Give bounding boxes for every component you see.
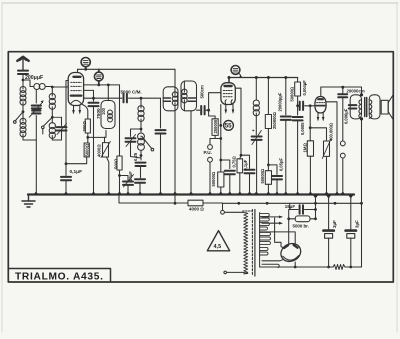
svg-text:250000: 250000 bbox=[213, 119, 218, 133]
output transformer core bbox=[365, 98, 367, 117]
svg-text:0,0005: 0,0005 bbox=[300, 122, 305, 135]
junction below L4 bbox=[51, 116, 54, 119]
svg-text:0,004μF: 0,004μF bbox=[302, 80, 307, 96]
tube V3 grid row bbox=[317, 102, 325, 104]
junction blob 1M/bus bbox=[308, 192, 313, 195]
junction blob 50uF/bus bbox=[126, 192, 131, 195]
screen dropping resistor 250000 bbox=[267, 76, 270, 79]
wire IFT1 down through bus to heater line bbox=[174, 103, 176, 204]
tube V2 anode bar bbox=[225, 85, 232, 87]
tube V2 (55) envelope bbox=[221, 83, 235, 105]
speaker filter bracket bbox=[350, 95, 361, 119]
svg-text:20000cm: 20000cm bbox=[347, 89, 365, 94]
coil L5 bbox=[51, 117, 53, 123]
bracket feed dot bbox=[360, 93, 363, 96]
wire L1 bottom to junction bbox=[22, 103, 24, 112]
svg-text:0,75Ω: 0,75Ω bbox=[232, 156, 237, 168]
primary bottom lead bbox=[227, 272, 248, 273]
junction blob 0.1uF/bus bbox=[64, 192, 69, 195]
tube V3 anode bar bbox=[318, 98, 323, 100]
coil L2 antenna secondary bbox=[22, 112, 24, 121]
filter electrolytic 2 bbox=[348, 195, 354, 199]
wire resistor to junction on x221 bbox=[215, 135, 221, 138]
scan page edge right bbox=[396, 3, 398, 332]
coupling cap 0.1uF to output grid bbox=[241, 155, 250, 168]
junction blob IFT1/bus bbox=[173, 192, 178, 195]
junction blob IFT2/bus bbox=[189, 192, 194, 195]
junction blob 7500/bus bbox=[91, 192, 96, 195]
cathode resistor Ra bbox=[83, 105, 88, 120]
grid leak 1 M ohm bbox=[309, 106, 311, 128]
coupling coil L3 horizontal bbox=[34, 84, 45, 90]
arrow from grid cap to bus bbox=[239, 73, 241, 75]
tube V3 cathode bar bbox=[316, 105, 325, 107]
junction blob jack/bus bbox=[340, 192, 345, 195]
tuning capacitor C1 (two gang stacked) bbox=[35, 90, 37, 103]
junction blob pot/bus bbox=[324, 192, 329, 195]
svg-text:500Ω: 500Ω bbox=[114, 158, 119, 169]
heater line right section bbox=[223, 202, 362, 204]
HT leads with arrows to rectifier bbox=[262, 216, 280, 218]
anode feed Z wire bbox=[275, 218, 285, 249]
wire IFT2 secondary down to bus bbox=[190, 111, 192, 194]
junction blob avc/bus bbox=[227, 192, 232, 195]
tone capacitor 0.05uF bbox=[268, 165, 277, 175]
wire L5/trimmer bottom joining down bbox=[52, 136, 61, 141]
svg-text:400.000Ω: 400.000Ω bbox=[328, 122, 333, 141]
filter capacitor 15uF bbox=[300, 205, 303, 213]
svg-text:4000 Ω: 4000 Ω bbox=[189, 207, 204, 212]
rectifier tube bbox=[278, 240, 304, 265]
tube V3 heater leads with arrows bbox=[317, 113, 319, 118]
coupling capacitor to V3 grid bbox=[300, 102, 303, 110]
wire node B right to tube V1 grid bbox=[52, 86, 68, 88]
capacitor 0.0005 bbox=[297, 106, 299, 115]
volume resistor 50000 bbox=[218, 172, 224, 187]
tube V2 type circle 55 bbox=[224, 121, 234, 131]
border frame bbox=[8, 52, 393, 282]
svg-text:4000Ω: 4000Ω bbox=[96, 144, 101, 157]
tube V2 plate line down bbox=[235, 88, 241, 155]
series capacitor bbox=[135, 179, 145, 182]
svg-text:50000Ω: 50000Ω bbox=[290, 86, 295, 101]
junction blob plate-res/bus bbox=[237, 192, 242, 195]
plate line of V1 to IF transformer bbox=[78, 68, 176, 70]
IF transformer IFT2 bracket bbox=[181, 81, 197, 111]
grid capacitor column x160 bbox=[160, 98, 162, 128]
svg-text:3μF: 3μF bbox=[332, 220, 337, 228]
band switch S1 bbox=[16, 112, 24, 121]
transformer core bbox=[251, 210, 253, 277]
wire Ra to junction bbox=[87, 133, 89, 137]
vertical x221 volume line bbox=[220, 105, 222, 173]
choke coil on B+ rail bbox=[255, 76, 258, 79]
junction blob x160/bus bbox=[158, 192, 163, 195]
svg-text:20000μμF: 20000μμF bbox=[278, 92, 283, 111]
junction blob x221/bus bbox=[218, 192, 223, 195]
junction blob 0.05/bus bbox=[275, 192, 280, 195]
transformer primary terminal bbox=[221, 210, 225, 214]
tube V1 anode bar bbox=[74, 76, 81, 78]
wire node A down to L1 bbox=[22, 80, 24, 89]
wire to V3 grid bbox=[310, 105, 315, 107]
junction below L1 bbox=[22, 110, 25, 113]
IFT2 coil bbox=[182, 89, 187, 103]
IFT1 coil bbox=[172, 92, 177, 106]
svg-text:5000 C/M.: 5000 C/M. bbox=[121, 90, 142, 95]
wire junction to osc coil bottom bbox=[88, 131, 106, 138]
svg-text:0,006μF: 0,006μF bbox=[344, 108, 349, 124]
dial lamp triangle bbox=[207, 231, 229, 251]
ground bus (chassis) bbox=[28, 193, 354, 195]
scan page edge top bbox=[2, 2, 398, 4]
tube V2 grid rows bbox=[223, 90, 233, 92]
secondary HT winding bbox=[259, 213, 261, 267]
svg-text:100: 100 bbox=[101, 107, 106, 115]
coil L1 antenna primary bbox=[20, 87, 26, 106]
coupling capacitor 5000 C/M bbox=[124, 94, 127, 102]
svg-text:1MΩ: 1MΩ bbox=[302, 143, 307, 153]
band switch S3 bbox=[142, 137, 152, 149]
capacitor 7500 bbox=[93, 90, 95, 101]
P.U. jack top bbox=[208, 145, 213, 150]
V3 plate line to output bbox=[321, 87, 362, 97]
padder capacitor with arrow across osc bbox=[252, 137, 262, 140]
wire L3 to grid node B bbox=[46, 86, 53, 88]
junction blob 20000/bus bbox=[283, 192, 288, 195]
wire osc top to screen line bbox=[107, 85, 109, 101]
screen line from V1 bbox=[84, 84, 120, 86]
IFT2 tuning capacitor bbox=[188, 98, 195, 101]
svg-text:TRIALMO. A435.: TRIALMO. A435. bbox=[15, 272, 104, 283]
potentiometer 4000 ohm bbox=[104, 137, 106, 142]
tube V3 (output) envelope bbox=[315, 97, 326, 114]
junction blob choke/bus bbox=[254, 192, 259, 195]
padding trimmer with arrow bbox=[131, 129, 142, 137]
output jack bottom bbox=[340, 153, 345, 158]
junction blob L2/bus bbox=[34, 192, 39, 195]
tube V1 heater leads with arrows bbox=[73, 106, 75, 111]
svg-text:50000Ω: 50000Ω bbox=[211, 171, 216, 186]
wire antenna to node A bbox=[22, 74, 24, 80]
wire tube V1 lower grid down to 0.1uF cap bbox=[66, 81, 68, 164]
tube V2 top cap wire bbox=[228, 78, 230, 83]
svg-text:4,5: 4,5 bbox=[214, 244, 222, 250]
wire Rb bottom to 0.1uF node bbox=[66, 157, 87, 164]
speaker voice-coil bracket bbox=[369, 95, 380, 119]
wire terminal to primary bbox=[224, 212, 247, 213]
tube V1 cathode bar bbox=[71, 94, 82, 96]
node A junction bbox=[22, 79, 25, 82]
bottom return line with hum resistor bbox=[260, 266, 333, 268]
svg-text:0,1μF: 0,1μF bbox=[70, 169, 83, 175]
wire cap to jack bbox=[342, 97, 344, 141]
tube V1 top cap circle g4 bbox=[81, 58, 90, 67]
heater sub-line bbox=[119, 195, 188, 203]
bypass cap 50uF bbox=[120, 176, 129, 181]
grid cap circle g2 bbox=[94, 72, 103, 81]
wire circle g2 up to plate line bbox=[98, 69, 100, 72]
tube V2 grid line bbox=[209, 93, 221, 111]
secondary top lead to rectifier bbox=[260, 232, 296, 244]
oscillator coil windings bbox=[108, 110, 113, 122]
junction blob screen/bus bbox=[335, 192, 340, 195]
wire jack to bus bbox=[342, 158, 344, 194]
tone potentiometer 400000 bbox=[310, 128, 326, 140]
title box bbox=[9, 269, 111, 282]
V3 screen line down to bus bbox=[326, 102, 337, 194]
wire pot down to bus bbox=[107, 157, 109, 194]
antenna bbox=[17, 57, 28, 70]
B+ top bus bbox=[229, 77, 298, 79]
field coil return vertical bbox=[361, 119, 363, 267]
svg-text:0,25: 0,25 bbox=[133, 152, 138, 161]
junction blob 0.0005/bus bbox=[295, 192, 300, 195]
svg-text:0,05μF: 0,05μF bbox=[279, 158, 284, 171]
filter electrolytic 1 bbox=[326, 195, 332, 199]
output capacitor 20000cm bbox=[341, 86, 344, 89]
svg-text:500cm: 500cm bbox=[200, 85, 205, 99]
speaker driver bbox=[381, 100, 388, 114]
coupling capacitor 500cm bbox=[197, 109, 200, 111]
wire to transformer terminal bbox=[203, 203, 223, 211]
svg-text:5000Ω: 5000Ω bbox=[84, 143, 89, 156]
oscillator coil bracket bbox=[101, 101, 115, 129]
coil L4 RF secondary bbox=[51, 87, 53, 96]
grid cap circle of V2 bbox=[231, 66, 240, 75]
diode load resistor 250000 bbox=[209, 110, 216, 119]
svg-text:3μF: 3μF bbox=[354, 220, 359, 228]
padder capacitor bbox=[136, 163, 146, 166]
scan page edge left bbox=[1, 3, 3, 332]
oscillator tank coil L6b bbox=[140, 135, 142, 138]
output jack top bbox=[340, 141, 345, 146]
plate load resistor bbox=[237, 159, 243, 173]
junction blob L6/bus bbox=[138, 192, 143, 195]
svg-text:55: 55 bbox=[225, 123, 232, 130]
junction blob 250000/bus bbox=[266, 192, 271, 195]
junction blob PU/bus bbox=[208, 192, 213, 195]
band switch S2 bbox=[44, 117, 53, 126]
trimmer capacitor with arrow bbox=[61, 117, 63, 125]
ground symbol bbox=[22, 195, 35, 208]
tube V2 heater leads with arrows bbox=[225, 104, 227, 110]
rectifier output lead down bbox=[294, 262, 296, 267]
svg-text:300Ω: 300Ω bbox=[82, 121, 87, 132]
IFT1 tuning capacitor bbox=[163, 98, 170, 101]
riser to bus bbox=[315, 197, 317, 219]
antenna series capacitor 200cm bbox=[18, 71, 28, 74]
decoupling cap 20000uuF bbox=[284, 76, 287, 79]
tube V1 (RF pentode) envelope bbox=[68, 73, 83, 106]
svg-text:5000 br.: 5000 br. bbox=[293, 224, 309, 229]
bottom dot of bracket bbox=[360, 117, 363, 120]
svg-text:15μF: 15μF bbox=[285, 204, 296, 209]
P.U. jack bottom bbox=[208, 157, 213, 162]
junction blob 0.1/bus bbox=[247, 192, 252, 195]
wire IFT1 feed from plate line bbox=[174, 69, 176, 94]
wire L2 bottom to bus bbox=[23, 135, 36, 141]
grid resistor 50000 on bus end bbox=[297, 78, 299, 83]
B plus riser bbox=[288, 219, 290, 244]
capacitor 0.1uF bbox=[65, 164, 67, 176]
wire circle g2 down to screen node bbox=[98, 81, 100, 85]
tube V2 diode plates bbox=[225, 100, 232, 105]
mains transformer core dashes top bbox=[243, 210, 253, 212]
heater resistor 4000 box bbox=[188, 200, 203, 206]
rectifier filament return bbox=[262, 259, 284, 261]
svg-text:0,1μF: 0,1μF bbox=[243, 159, 248, 170]
junction blob x119/bus bbox=[117, 192, 122, 195]
output transformer primary winding bbox=[359, 100, 362, 118]
svg-text:P.U.: P.U. bbox=[204, 150, 212, 155]
grid resistor column x119 bbox=[119, 85, 121, 156]
speaker cone bbox=[388, 95, 393, 119]
svg-text:250000Ω: 250000Ω bbox=[272, 111, 277, 129]
svg-text:50000Ω: 50000Ω bbox=[260, 168, 265, 183]
bias resistor Rb bbox=[87, 137, 89, 143]
bleeder resistor 5000 bbox=[289, 218, 296, 220]
line V1 cathode to coupling cap bbox=[84, 97, 122, 99]
voice coil winding bbox=[369, 100, 372, 118]
wire node A to coupling coil bbox=[23, 80, 34, 87]
node B junction bbox=[51, 86, 54, 89]
IF transformer IFT1 bracket bbox=[163, 87, 178, 111]
wire L6b bottom to padder cap bbox=[140, 151, 142, 161]
oscillator tank coil L6a bbox=[140, 98, 142, 104]
bracket capacitor bbox=[349, 105, 357, 108]
line V1 g3 bbox=[84, 89, 94, 91]
tube V1 grid rows bbox=[71, 81, 81, 83]
AVC capacitor bbox=[221, 160, 230, 169]
AF stopper resistor 50000 bbox=[267, 165, 269, 171]
junction blob pot/bus bbox=[106, 192, 111, 195]
mains transformer primary winding bbox=[244, 213, 248, 274]
